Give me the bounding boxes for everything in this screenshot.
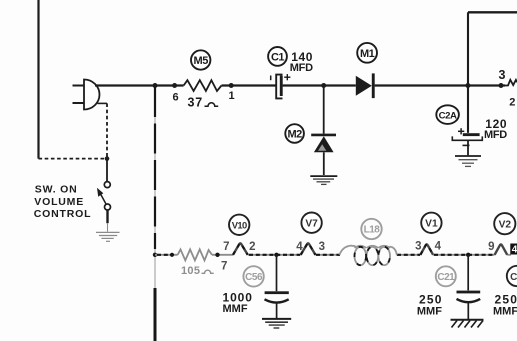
svg-text:7: 7 — [221, 261, 227, 273]
svg-text:M2: M2 — [287, 129, 302, 141]
svg-text:3: 3 — [499, 68, 506, 82]
svg-text:6: 6 — [172, 92, 178, 104]
svg-text:MFD: MFD — [484, 129, 507, 141]
svg-text:C21: C21 — [437, 272, 455, 283]
svg-text:3: 3 — [319, 241, 325, 253]
svg-text:3: 3 — [415, 241, 421, 253]
svg-text:MFD: MFD — [290, 62, 313, 74]
svg-text:250: 250 — [495, 293, 517, 307]
svg-text:105: 105 — [181, 265, 200, 277]
svg-text:4: 4 — [512, 245, 517, 256]
svg-text:C2: C2 — [510, 272, 517, 283]
svg-text:C2A: C2A — [439, 110, 457, 121]
svg-text:250: 250 — [419, 293, 443, 307]
svg-text:M1: M1 — [360, 48, 375, 60]
svg-text:V2: V2 — [499, 220, 512, 231]
svg-text:37: 37 — [188, 96, 204, 110]
svg-text:M5: M5 — [194, 55, 209, 67]
svg-text:C1: C1 — [271, 52, 284, 64]
svg-text:1: 1 — [228, 90, 234, 102]
svg-text:SW. ON: SW. ON — [35, 184, 78, 196]
svg-text:V1: V1 — [425, 219, 438, 230]
svg-text:L18: L18 — [364, 225, 381, 236]
svg-text:V7: V7 — [305, 219, 318, 230]
svg-text:V10: V10 — [232, 220, 247, 231]
svg-text:4: 4 — [435, 241, 442, 253]
svg-text:MMF: MMF — [493, 306, 517, 318]
svg-text:CONTROL: CONTROL — [34, 208, 92, 220]
svg-text:MMF: MMF — [223, 303, 248, 315]
svg-text:VOLUME: VOLUME — [34, 196, 84, 208]
svg-text:C56: C56 — [245, 272, 263, 283]
svg-text:2: 2 — [249, 241, 255, 253]
svg-text:MMF: MMF — [417, 306, 442, 318]
svg-text:2: 2 — [509, 97, 515, 109]
svg-text:7: 7 — [223, 241, 229, 253]
svg-text:4: 4 — [296, 241, 303, 253]
svg-text:9: 9 — [488, 241, 494, 253]
